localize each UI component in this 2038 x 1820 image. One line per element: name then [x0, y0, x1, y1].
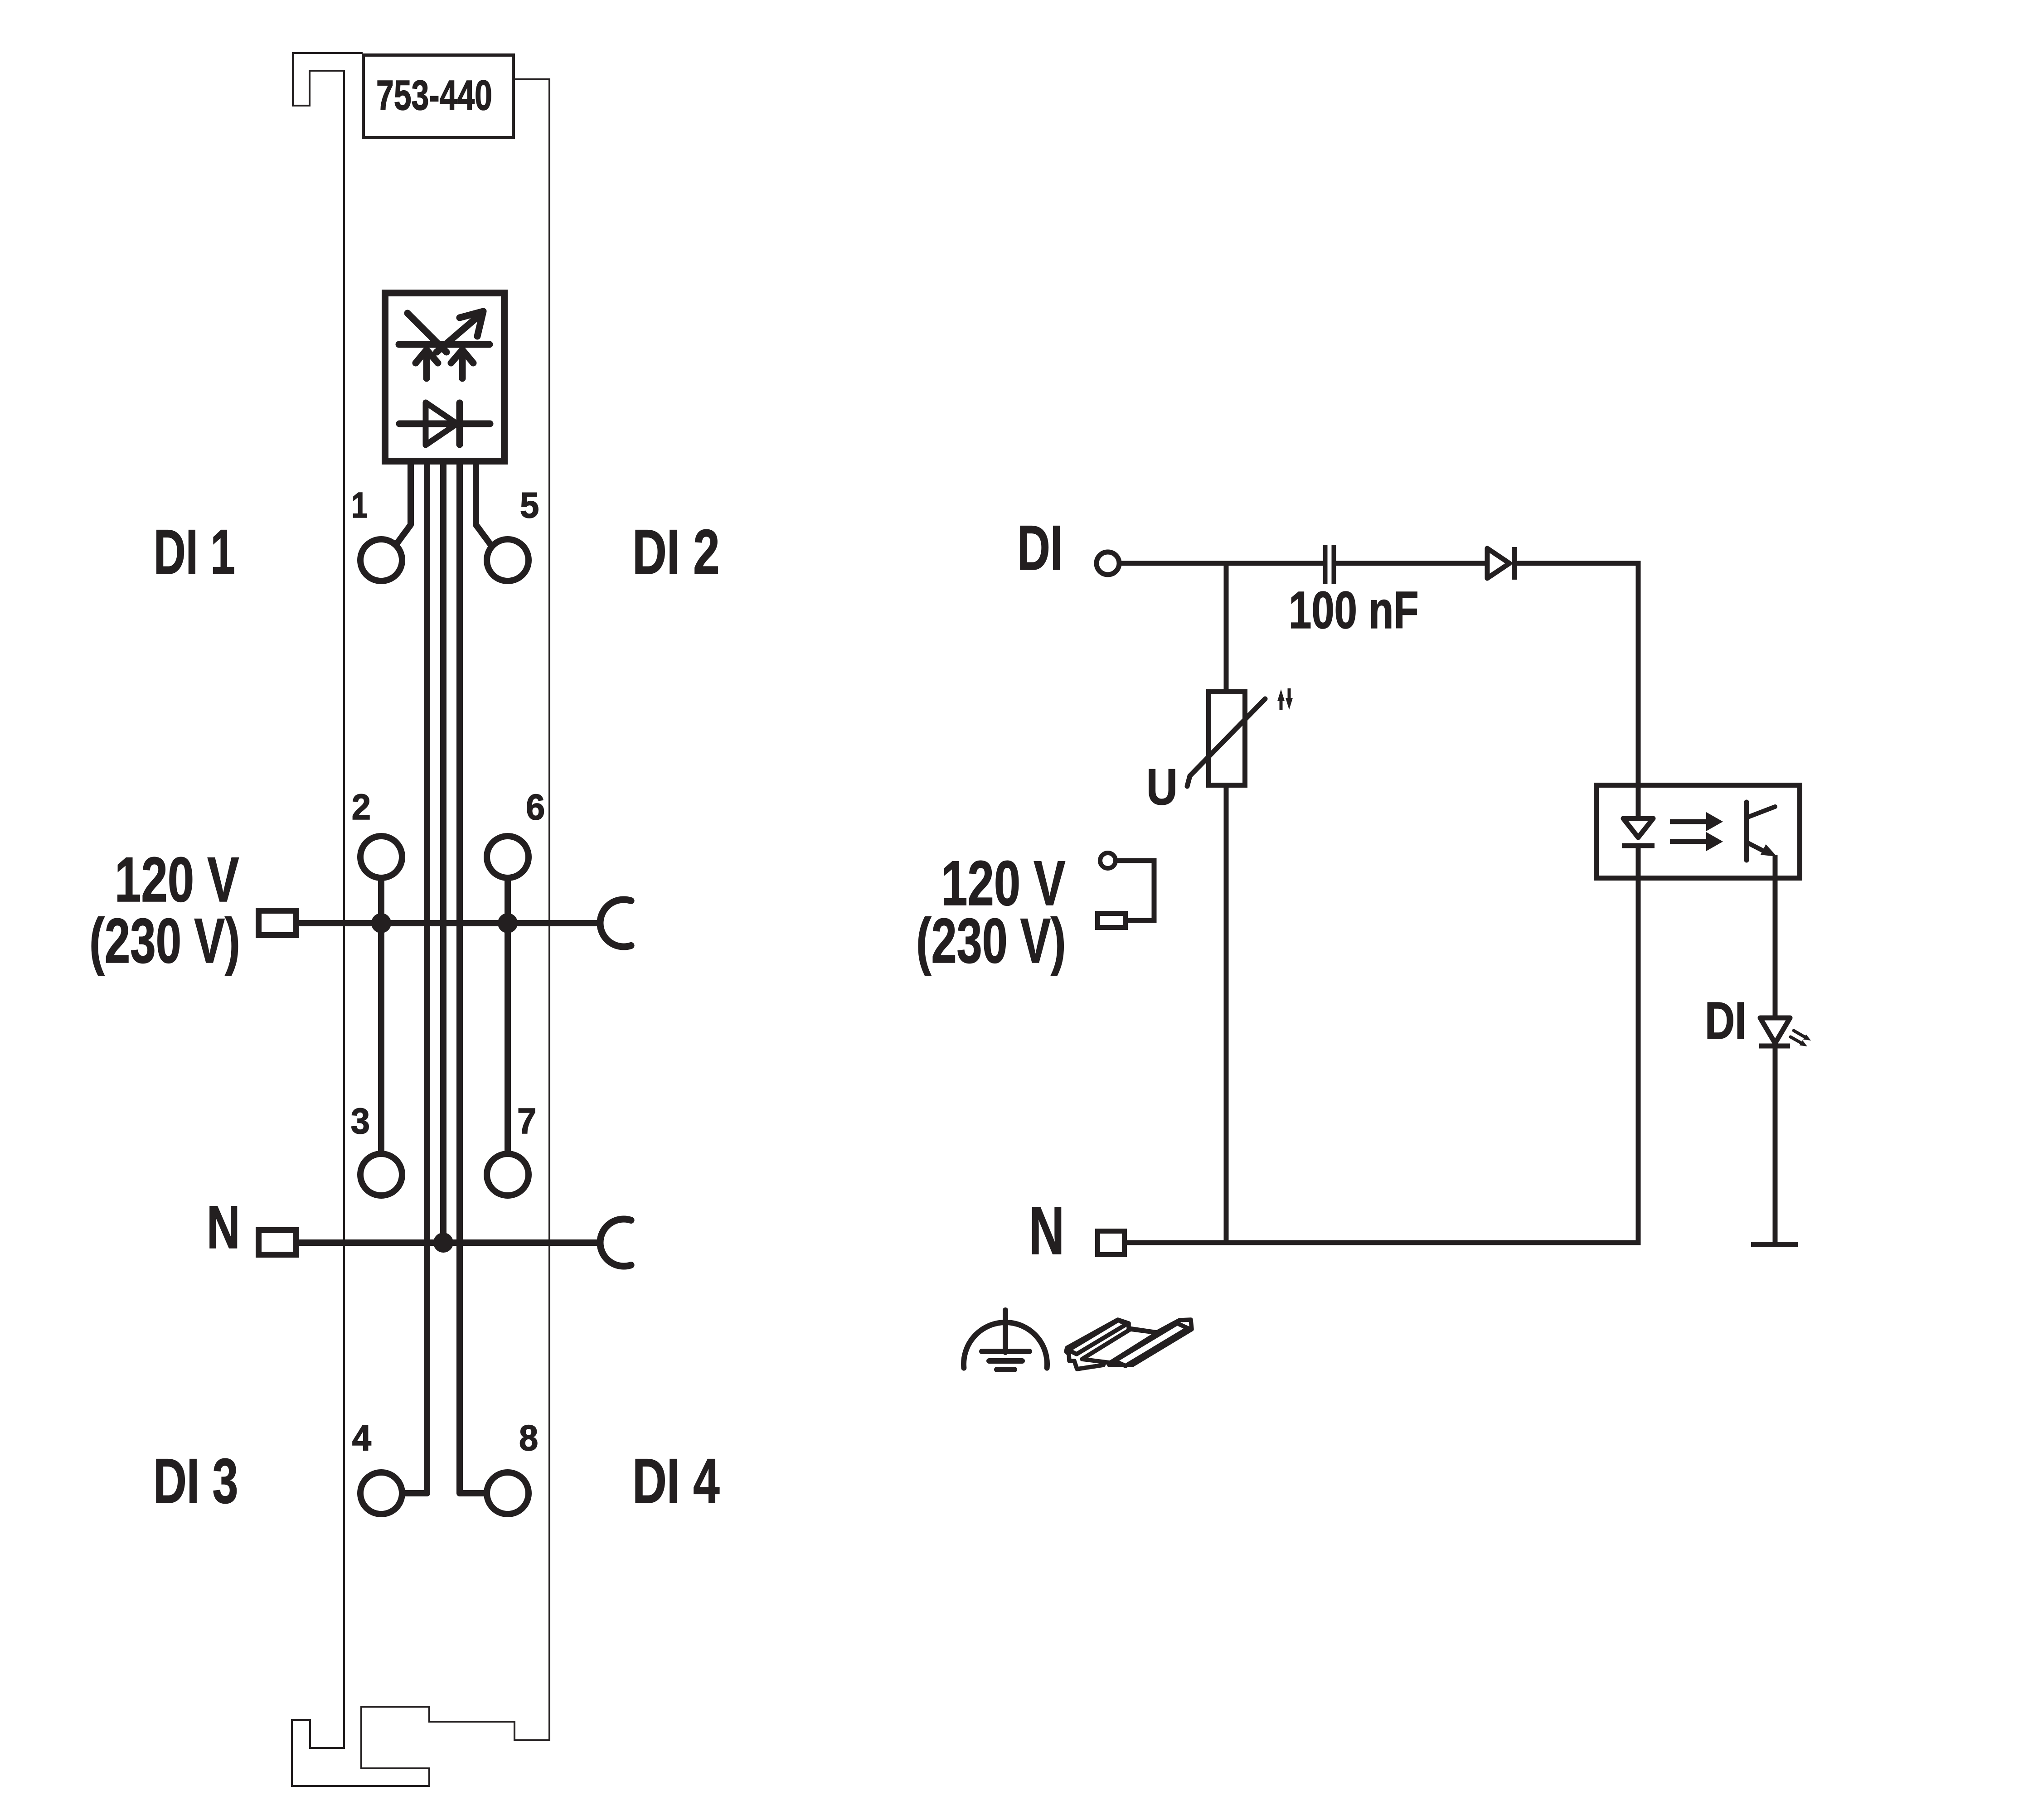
svg-text:(230 V): (230 V): [916, 905, 1066, 976]
DI input terminal: [1097, 552, 1119, 575]
N power bus wire: [299, 1239, 601, 1246]
label box 753-440: [364, 55, 514, 138]
junction dot N bus: [433, 1233, 453, 1253]
svg-text:8: 8: [519, 1417, 538, 1458]
120V/230V option bracket wire: [1116, 861, 1154, 920]
N male pin: [259, 1230, 296, 1255]
optocoupler LED: [1622, 818, 1655, 846]
terminal 6 (120V): [487, 836, 529, 878]
svg-text:DI: DI: [1017, 513, 1063, 583]
varistor U arrows: [1281, 688, 1289, 710]
wire varistor to N: [1224, 785, 1229, 1243]
wire DI node to varistor: [1224, 563, 1229, 692]
module outline 753-440 terminal block: [292, 53, 549, 1786]
DIN rail icon: [1066, 1320, 1192, 1369]
svg-text:DI 4: DI 4: [632, 1446, 720, 1516]
varistor RV1: [1209, 692, 1245, 785]
svg-text:DI: DI: [1705, 992, 1747, 1050]
optocoupler U2 box: [1596, 785, 1800, 878]
N female jumper contact: [600, 1219, 631, 1266]
capacitor C1 100 nF: [1325, 545, 1334, 584]
svg-text:4: 4: [352, 1417, 371, 1458]
optocoupler LED wire in: [1636, 785, 1641, 818]
junction dot terminal 2 / 120V bus: [371, 913, 391, 933]
phototransistor Q1: [1747, 802, 1775, 860]
indicator LED light arrows: [1791, 1031, 1805, 1043]
varistor diagonal stroke: [1187, 699, 1265, 786]
svg-text:DI 1: DI 1: [154, 517, 235, 587]
terminal 1 (DI 1): [360, 539, 402, 581]
ground symbol with dome: [964, 1310, 1047, 1370]
230V option male pin: [1098, 914, 1126, 928]
indicator LED DI: [1759, 1018, 1790, 1046]
120V male pin: [259, 911, 296, 935]
optocoupler light arrow 1: [1670, 812, 1723, 831]
svg-text:100 nF: 100 nF: [1289, 581, 1419, 639]
terminal 2 (120V): [360, 836, 402, 878]
svg-text:1: 1: [351, 485, 368, 525]
ground bar for indicator LED: [1751, 1242, 1798, 1247]
svg-text:DI 2: DI 2: [632, 517, 720, 587]
wire DI terminal to capacitor: [1119, 561, 1323, 566]
svg-text:DI 3: DI 3: [153, 1445, 238, 1516]
svg-text:753-440: 753-440: [376, 72, 492, 119]
terminal 4 (DI 3): [360, 1472, 402, 1514]
svg-text:7: 7: [517, 1100, 536, 1141]
120V female jumper contact: [600, 900, 631, 947]
svg-text:N: N: [207, 1194, 240, 1262]
terminal 8 (DI 4): [487, 1472, 529, 1514]
terminal 7: [487, 1154, 529, 1196]
svg-text:N: N: [1029, 1193, 1064, 1269]
svg-text:5: 5: [520, 484, 539, 525]
wire from U1 to terminal 8 (DI 4): [460, 465, 486, 1493]
emitter wire down to indicator LED: [1773, 855, 1778, 1018]
wire capacitor to diode: [1336, 561, 1487, 566]
120V power bus wire: [299, 920, 601, 926]
wire from U1 to N bus: [440, 465, 446, 1243]
wire from U1 to terminal 4 (DI 3): [403, 465, 427, 1493]
svg-text:6: 6: [526, 786, 545, 827]
svg-text:2: 2: [352, 786, 371, 827]
wire terminal 6 to terminal 7: [505, 878, 511, 1154]
wire diode to optocoupler: [1514, 563, 1638, 785]
indicator LED cathode wire to ground: [1773, 1046, 1778, 1244]
optocoupler light arrow 2: [1670, 832, 1723, 851]
diode D1: [1487, 547, 1514, 580]
svg-text:3: 3: [351, 1100, 370, 1141]
wire from U1 to terminal 1: [395, 465, 411, 546]
wire terminal 2 to terminal 3: [378, 878, 384, 1154]
phototransistor emitter arrowhead: [1761, 844, 1777, 857]
N male pin (right): [1098, 1231, 1125, 1255]
surge suppressor symbol inside U1: [399, 311, 490, 378]
junction dot terminal 6 / 120V bus: [498, 913, 518, 933]
svg-text:U: U: [1146, 759, 1178, 816]
svg-text:(230 V): (230 V): [89, 905, 240, 976]
diode symbol inside U1: [399, 402, 490, 445]
optocoupler LED cathode wire to N: [1127, 846, 1638, 1243]
wire from U1 to terminal 5: [476, 465, 491, 546]
terminal 3: [360, 1154, 402, 1196]
terminal 5 (DI 2): [487, 539, 529, 581]
120V option terminal circle: [1100, 853, 1116, 868]
input circuit box U1 (rectifier/suppressor block): [385, 293, 505, 461]
